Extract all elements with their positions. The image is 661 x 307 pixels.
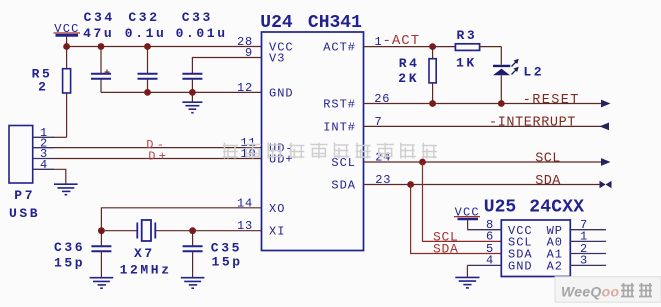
wire crystal left lead (101, 230, 137, 232)
node SCL junction (419, 159, 426, 166)
svg-text:47u: 47u (83, 26, 114, 41)
svg-text:USB: USB (9, 206, 40, 221)
wire VCC flag to rail (66, 37, 68, 47)
connector P7 USB (9, 126, 54, 221)
svg-text:C34: C34 (84, 10, 115, 25)
capacitor C35 (183, 231, 243, 277)
svg-text:U24: U24 (260, 13, 293, 33)
svg-text:P7: P7 (14, 188, 35, 203)
resistor R3 (433, 28, 502, 71)
svg-text:15p: 15p (54, 256, 85, 271)
node C32 junction (144, 43, 151, 50)
svg-text:L2: L2 (523, 65, 544, 80)
ground below C33 (182, 102, 202, 113)
wire D- USB pin2 to U24 pin 11 (54, 147, 262, 149)
node XI/C35 junction (189, 227, 196, 234)
svg-text:12MHz: 12MHz (120, 262, 172, 277)
svg-text:X7: X7 (134, 246, 155, 261)
node XO/C36 junction (98, 227, 105, 234)
crystal X7 (120, 220, 172, 277)
svg-text:4: 4 (40, 158, 48, 172)
svg-text:7: 7 (375, 115, 383, 129)
wire U25 pin4 to ground (466, 265, 468, 276)
capacitor C34 (83, 10, 115, 92)
svg-text:SDA: SDA (433, 242, 459, 257)
ground below USB pin 4 (54, 184, 78, 195)
wire R5 to USB pin1 (54, 136, 67, 138)
svg-text:VCC: VCC (455, 206, 480, 220)
wire INTERRUPT pin 7 (364, 125, 609, 127)
wire SCL to U25 pin 6 (423, 162, 502, 241)
LED L2 (493, 47, 544, 104)
svg-text:SDA: SDA (331, 179, 356, 193)
wire VCC rail to U24 pin 28 (67, 46, 262, 48)
resistor R4 (398, 47, 436, 104)
svg-text:24CXX: 24CXX (529, 197, 584, 217)
svg-text:C32: C32 (128, 10, 159, 25)
wire XO (U24 pin 14) (101, 208, 261, 231)
arrow RESET (601, 100, 611, 108)
arrow SDA bidirectional (600, 181, 606, 188)
resistor R5 (32, 47, 71, 138)
node VCC junction (63, 43, 70, 50)
svg-text:1K: 1K (456, 56, 477, 71)
node SDA junction (407, 181, 414, 188)
wire D+ USB pin3 to U24 pin 10 (54, 158, 262, 160)
svg-text:12: 12 (237, 81, 253, 95)
svg-text:2K: 2K (398, 71, 419, 86)
svg-text:3: 3 (580, 254, 588, 268)
node C33 bottom junction (189, 89, 196, 96)
wire XI (U24 pin 13) to crystal (155, 230, 261, 232)
wire SDA pin 23 (364, 184, 605, 186)
node LED/RESET junction (498, 100, 505, 107)
wire ACT# pin 1 (364, 46, 433, 48)
svg-text:SCL: SCL (535, 151, 561, 166)
node C32 bottom junction (144, 89, 151, 96)
svg-text:WeeQoo: WeeQoo (561, 284, 619, 300)
svg-text:XO: XO (269, 202, 285, 216)
svg-text:RST#: RST# (323, 98, 356, 112)
svg-text:INT#: INT# (323, 120, 356, 134)
svg-text:V3: V3 (269, 52, 285, 66)
ground below U25 (455, 277, 479, 288)
svg-text:2: 2 (38, 80, 48, 95)
arrow SCL (601, 158, 611, 166)
svg-text:14: 14 (237, 196, 253, 210)
svg-text:-RESET: -RESET (523, 93, 580, 108)
svg-text:13: 13 (237, 219, 253, 233)
node ACT/R4/R3 junction (429, 43, 436, 50)
power flag VCC (U25) (454, 206, 480, 230)
watermark center (223, 143, 238, 159)
wire USB pin4 to ground (54, 169, 66, 183)
svg-text:R4: R4 (399, 56, 420, 71)
chip U25 24CXX (467, 197, 606, 276)
svg-text:C33: C33 (182, 10, 213, 25)
svg-text:U25: U25 (484, 197, 516, 217)
wire V3 (pin 9) to C33 (192, 58, 261, 74)
chip U24 CH341 (237, 13, 391, 250)
svg-text:0.01u: 0.01u (176, 26, 228, 41)
svg-text:SDA: SDA (535, 174, 561, 189)
svg-text:CH341: CH341 (308, 13, 362, 33)
svg-text:A2: A2 (547, 260, 563, 274)
watermark WeeQoo box (555, 277, 661, 303)
node C34 junction (98, 43, 105, 50)
node R4/RESET junction (429, 100, 436, 107)
arrow INTERRUPT (600, 123, 610, 131)
wire GND line to U24 pin 12 (101, 91, 262, 93)
svg-text:R3: R3 (457, 28, 478, 43)
svg-text:15p: 15p (212, 255, 243, 270)
svg-text:-ACT: -ACT (383, 33, 421, 49)
svg-text:XI: XI (269, 225, 285, 239)
wire RESET pin 26 (364, 103, 605, 105)
svg-text:D+: D+ (148, 150, 169, 164)
svg-text:4: 4 (486, 254, 494, 268)
svg-text:GND: GND (269, 86, 294, 100)
ground below C36 (90, 278, 114, 289)
ground below C35 (181, 278, 205, 289)
svg-text:ACT#: ACT# (323, 41, 356, 55)
svg-text:9: 9 (245, 46, 253, 60)
wire SDA to U25 pin 5 (411, 185, 502, 254)
svg-text:-INTERRUPT: -INTERRUPT (489, 116, 576, 131)
svg-text:0.1u: 0.1u (125, 26, 167, 41)
svg-text:C36: C36 (54, 240, 85, 255)
wire SCL pin 24 (364, 161, 605, 163)
capacitor C32 (125, 10, 167, 92)
capacitor C36 (54, 231, 111, 277)
power flag VCC top-left (54, 22, 81, 36)
capacitor C33 (176, 10, 228, 101)
svg-text:GND: GND (508, 260, 533, 274)
svg-text:C35: C35 (211, 241, 242, 256)
